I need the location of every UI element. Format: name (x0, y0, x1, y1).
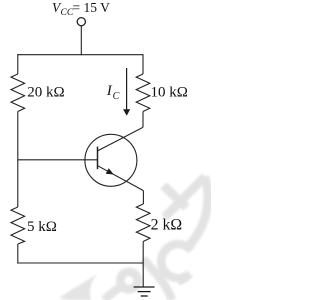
svg-text:5 kΩ: 5 kΩ (27, 219, 57, 235)
wire: terminal stem (80, 26, 82, 55)
resistor 5 kOhm (11, 207, 25, 244)
wire: right rail to collector corner (142, 112, 144, 128)
svg-text:20 kΩ: 20 kΩ (27, 85, 64, 101)
supply terminal VCC (77, 18, 85, 26)
svg-text:2 kΩ: 2 kΩ (151, 217, 183, 234)
current arrow IC (126, 68, 128, 111)
transistor Q1 (NPN) (85, 134, 137, 186)
wire: emitter diagonal (98, 166, 144, 191)
wire: bottom rail (17, 262, 143, 264)
watermark (60, 177, 208, 300)
svg-text:C: C (113, 91, 120, 102)
resistor 2 kOhm (136, 204, 150, 242)
emitter arrowhead (106, 168, 114, 174)
base bar (97, 147, 99, 170)
wire: top rail (17, 54, 143, 56)
svg-text:10 kΩ: 10 kΩ (151, 84, 188, 100)
wire: left rail middle (17, 112, 19, 208)
wire: emitter to 2k (142, 191, 144, 204)
resistor 20 kOhm (11, 74, 25, 112)
wire: base (18, 159, 98, 161)
svg-text:= 15 V: = 15 V (73, 0, 111, 15)
wire: left rail lower (17, 244, 19, 264)
wire: 2k to ground (142, 242, 144, 288)
resistor 10 kOhm (136, 74, 150, 112)
wire: left rail upper (17, 54, 19, 74)
wire: right rail upper (142, 54, 144, 74)
ground (134, 286, 155, 288)
wire: collector diagonal (98, 127, 143, 151)
